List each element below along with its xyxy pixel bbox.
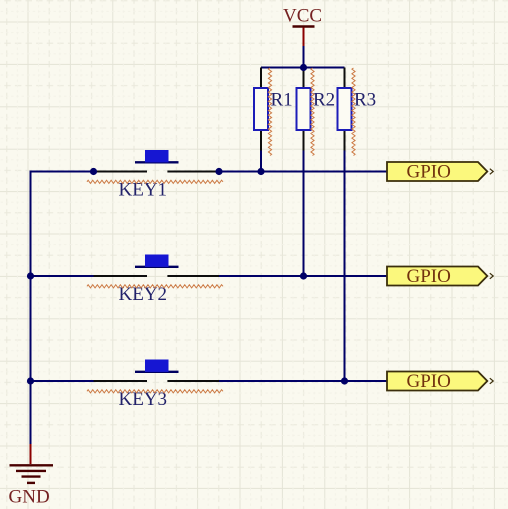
- svg-text:VCC: VCC: [283, 6, 322, 27]
- wire R2 column: [303, 150, 305, 276]
- wire top rail: [261, 67, 345, 69]
- wire KEY1 row left segment: [30, 171, 94, 173]
- junction rail-KEY3: [27, 377, 34, 384]
- junction R2-KEY2: [300, 272, 307, 279]
- resistor R2: [297, 68, 311, 151]
- error squiggle R1: [268, 68, 271, 156]
- wire R1 column: [260, 150, 262, 172]
- svg-text:R2: R2: [313, 90, 335, 111]
- svg-text:GPIO: GPIO: [407, 266, 451, 287]
- junction KEY1 right: [215, 168, 222, 175]
- junction R3-KEY3: [341, 377, 348, 384]
- junction R1-KEY1: [257, 168, 264, 175]
- resistor R1: [254, 68, 268, 151]
- svg-text:GND: GND: [9, 487, 50, 508]
- port GPIO 1: [387, 162, 493, 183]
- error squiggle KEY2: [87, 285, 223, 288]
- junction rail-KEY2: [27, 272, 34, 279]
- wire KEY2 row left segment: [30, 275, 94, 277]
- svg-text:GPIO: GPIO: [407, 371, 451, 392]
- port GPIO 3: [387, 371, 493, 392]
- wire KEY3 row right segment to port: [219, 380, 387, 382]
- svg-text:R3: R3: [354, 90, 376, 111]
- error squiggle KEY3: [87, 390, 223, 393]
- error squiggle R2: [311, 68, 314, 156]
- push button KEY1: [94, 150, 220, 172]
- error squiggle R3: [352, 68, 355, 156]
- wire KEY3 row left segment: [30, 380, 94, 382]
- svg-text:R1: R1: [271, 90, 293, 111]
- push button KEY2: [94, 255, 220, 277]
- push button KEY3: [94, 360, 220, 382]
- resistor R3: [338, 68, 352, 151]
- port GPIO 2: [387, 266, 493, 287]
- power symbol VCC: [283, 6, 322, 48]
- wire R3 column: [344, 150, 346, 381]
- junction VCC rail: [300, 64, 307, 71]
- ground symbol GND: [9, 444, 54, 508]
- junction KEY1 left: [90, 168, 97, 175]
- wire KEY1 row right segment to port: [219, 171, 387, 173]
- wire left rail to ground: [30, 172, 32, 446]
- wire KEY2 row right segment to port: [219, 275, 387, 277]
- svg-text:GPIO: GPIO: [407, 162, 451, 183]
- error squiggle KEY1: [87, 180, 223, 183]
- wire VCC stem to rail: [303, 46, 305, 68]
